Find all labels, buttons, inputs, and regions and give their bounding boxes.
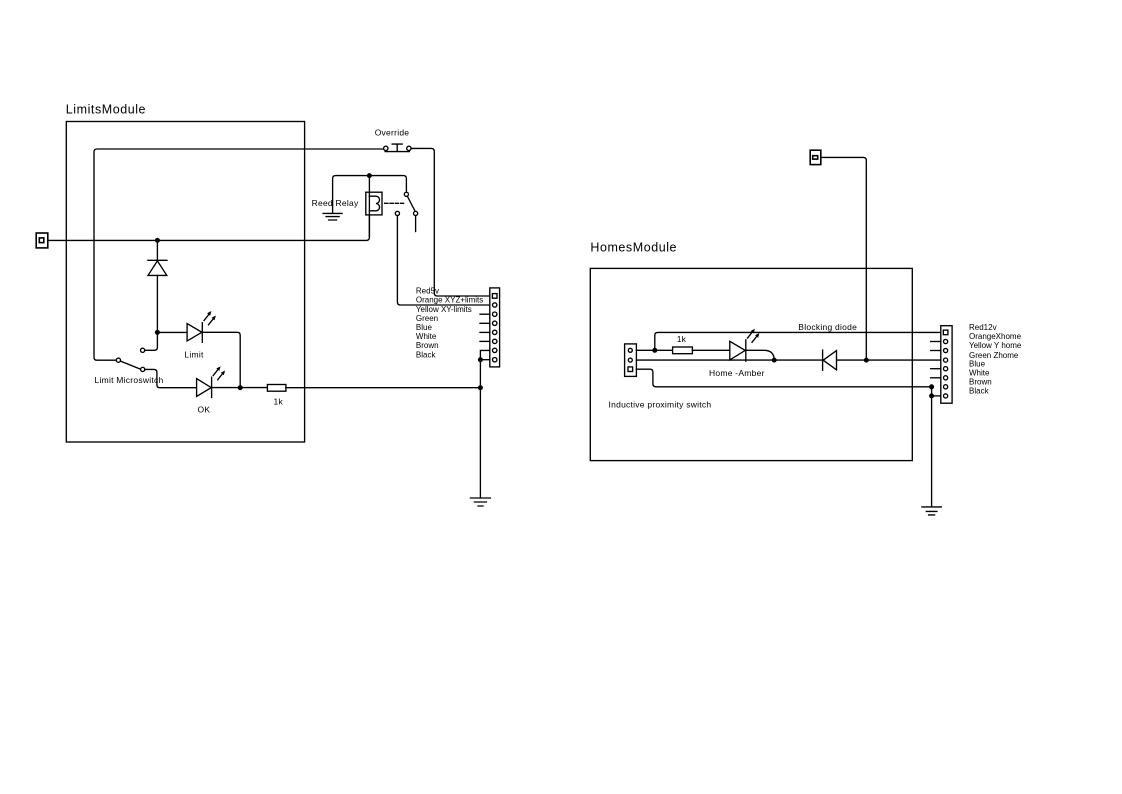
svg-text:1k: 1k bbox=[677, 334, 687, 344]
node junction port net bbox=[864, 358, 869, 363]
wire: LED Limit to OK junction (right drop) bbox=[202, 332, 240, 387]
svg-text:Blocking diode: Blocking diode bbox=[798, 322, 857, 332]
port node X1 (LimitsModule input) bbox=[36, 233, 48, 248]
port node X2 (HomesModule input) bbox=[810, 150, 821, 164]
node junction Brown row bbox=[929, 384, 934, 389]
wire: port to middle net bbox=[821, 157, 867, 360]
diode D1 bbox=[148, 259, 167, 261]
connector J3 bbox=[941, 326, 952, 404]
wire: inner loop wire (pole to top rail to Override) bbox=[94, 149, 384, 360]
wire: resistor to LED Home bbox=[692, 349, 729, 351]
svg-text:HomesModule: HomesModule bbox=[590, 241, 677, 255]
switch SW2 Override plunger bbox=[385, 144, 409, 152]
wire: NC contact to connector pin Orange bbox=[397, 216, 489, 306]
wire: NO contact stub bbox=[415, 216, 417, 232]
wire: throw2 to LED OK bbox=[145, 369, 197, 387]
svg-text:Limit: Limit bbox=[184, 349, 204, 359]
svg-text:Override: Override bbox=[375, 128, 410, 138]
wire: middle net (pin2 to connector Green Zhome) bbox=[636, 359, 940, 361]
switch SW1 throw1 contact bbox=[141, 348, 145, 352]
svg-text:Blue: Blue bbox=[969, 359, 986, 368]
relay K1 switch NC contact bbox=[395, 211, 399, 215]
wire: pin1 to 1k junction bbox=[636, 349, 654, 351]
LED D3 OK bbox=[197, 379, 212, 397]
svg-text:OK: OK bbox=[198, 405, 211, 415]
wire: stub OrangeXhome bbox=[931, 341, 941, 343]
node junction at LED Limit anode bbox=[155, 330, 160, 335]
wire: relay coil vertical bbox=[368, 176, 370, 238]
wire: stub Yellow bbox=[480, 313, 490, 315]
svg-text:1k: 1k bbox=[274, 397, 284, 407]
node junction at 1k input bbox=[652, 348, 657, 353]
wire: stub Yellow Yhome bbox=[931, 350, 941, 352]
HomesModule box bbox=[590, 268, 912, 460]
svg-text:Brown: Brown bbox=[416, 341, 439, 350]
relay K1 switch common contact bbox=[404, 192, 408, 196]
svg-text:OrangeXhome: OrangeXhome bbox=[969, 332, 1022, 341]
node junction at diode top bbox=[155, 238, 160, 243]
relay K1 switch NO contact bbox=[414, 211, 418, 215]
wire: Brown-Black tie bbox=[480, 350, 489, 359]
wire: Override to connector pin Red5v bbox=[411, 148, 490, 296]
svg-text:Home -Amber: Home -Amber bbox=[709, 368, 765, 378]
ground (homes) bbox=[922, 507, 941, 515]
ground (limits) bbox=[470, 498, 490, 506]
switch SW2 Override contact right bbox=[407, 146, 411, 150]
diode D5 blocking bbox=[822, 350, 824, 370]
node junction resistor net bbox=[478, 385, 483, 390]
LimitsModule box bbox=[66, 122, 304, 443]
LED D4 Home Amber bbox=[730, 341, 745, 360]
wire: relay top rail bbox=[333, 176, 407, 214]
svg-text:Orange XYZ+limits: Orange XYZ+limits bbox=[416, 296, 483, 305]
svg-text:Inductive proximity switch: Inductive proximity switch bbox=[609, 399, 712, 409]
relay K1 switch blade bbox=[407, 196, 415, 211]
svg-text:Blue: Blue bbox=[416, 323, 433, 332]
wire: ground drop homes bbox=[931, 387, 933, 507]
svg-text:Yellow Y home: Yellow Y home bbox=[969, 341, 1022, 350]
svg-text:Black: Black bbox=[416, 350, 437, 359]
wire: junction up to Red12v rail bbox=[655, 332, 941, 350]
svg-text:Reed Relay: Reed Relay bbox=[312, 198, 359, 208]
ground (reed relay) bbox=[323, 213, 342, 220]
wire: junction down to diode D1 bbox=[156, 240, 158, 260]
wire: LED out S-curve to middle net bbox=[746, 350, 774, 360]
node junction Black pin bbox=[478, 357, 483, 362]
switch SW1 throw2 contact bbox=[141, 367, 145, 371]
relay K1 box bbox=[366, 192, 382, 215]
relay K1 coil bbox=[369, 196, 379, 211]
switch SW2 Override contact left bbox=[384, 146, 388, 150]
switch SW1 pole contact bbox=[116, 358, 120, 362]
svg-text:White: White bbox=[416, 332, 437, 341]
LED D2 Limit bbox=[187, 324, 202, 341]
wire: OK LED to resistor bbox=[212, 387, 268, 389]
connector J1 bbox=[490, 288, 500, 367]
wire: stub White bbox=[931, 377, 941, 379]
svg-text:Red5v: Red5v bbox=[416, 287, 439, 296]
relay K1 linkage (dashed) bbox=[385, 202, 404, 204]
wire: junction to resistor bbox=[655, 349, 673, 351]
wire: stub Blue bbox=[480, 331, 490, 333]
wire: junction down-left to switch throw 1 bbox=[145, 332, 158, 350]
wire: stub White bbox=[480, 340, 490, 342]
wire: stub Green bbox=[480, 322, 490, 324]
svg-text:White: White bbox=[969, 369, 990, 378]
wire: Black row stub bbox=[932, 395, 941, 397]
wire: pin3 to Brown net bbox=[636, 369, 931, 387]
wire: ground drop bbox=[479, 360, 481, 498]
resistor R2 1k bbox=[673, 347, 693, 354]
wire: junction to LED Limit bbox=[157, 331, 187, 333]
svg-text:Red12v: Red12v bbox=[969, 323, 997, 332]
svg-text:Green: Green bbox=[416, 314, 438, 323]
wire: stub Blue bbox=[931, 368, 941, 370]
svg-text:Brown: Brown bbox=[969, 378, 992, 387]
wire: diode to LED junction bbox=[156, 275, 158, 332]
node junction Black row bbox=[929, 393, 934, 398]
node junction below Limit LED drop bbox=[238, 385, 243, 390]
resistor R1 1k bbox=[267, 385, 286, 392]
connector J2 (proximity switch) bbox=[625, 344, 637, 377]
node junction at relay coil top bbox=[367, 173, 372, 178]
svg-text:Yellow XY-limits: Yellow XY-limits bbox=[416, 305, 472, 314]
wire: resistor to ground net junction bbox=[286, 387, 481, 389]
switch SW1 blade bbox=[120, 361, 140, 369]
wire: port to relay coil (net 5v in) bbox=[48, 215, 370, 241]
node junction LED out bbox=[772, 358, 777, 363]
svg-text:Limit Microswitch: Limit Microswitch bbox=[95, 375, 164, 385]
svg-text:LimitsModule: LimitsModule bbox=[66, 102, 146, 116]
svg-text:Black: Black bbox=[969, 387, 990, 396]
